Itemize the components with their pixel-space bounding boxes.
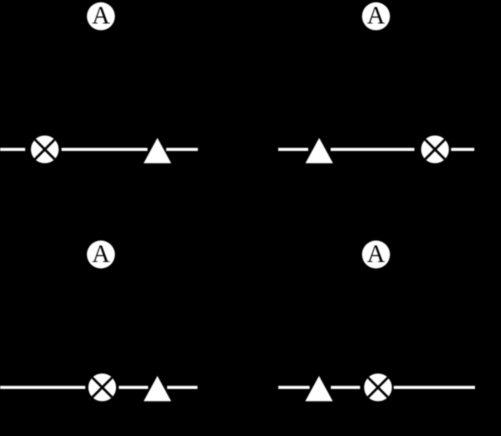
- svg-text:A: A: [367, 3, 385, 30]
- svg-text:A: A: [92, 241, 110, 268]
- svg-text:A: A: [367, 241, 385, 268]
- svg-text:A: A: [92, 3, 110, 30]
